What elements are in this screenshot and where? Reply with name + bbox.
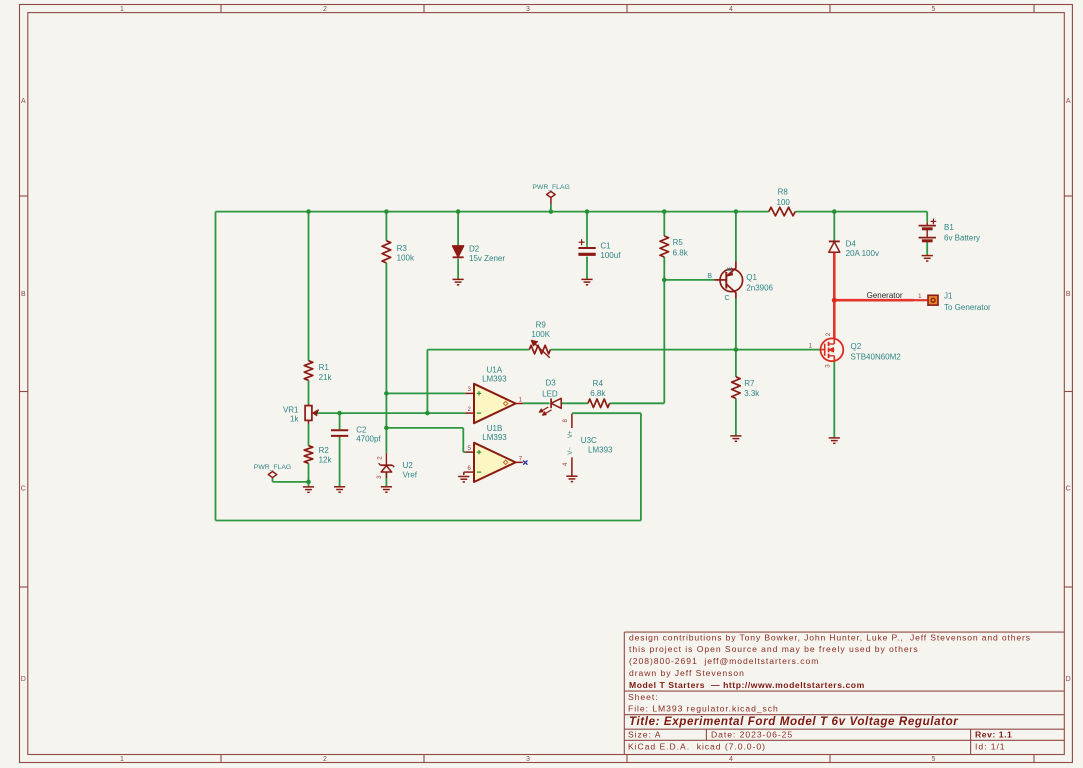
junction Q1 base/R5 xyxy=(662,278,667,283)
resistor R2 xyxy=(304,446,332,465)
svg-text:STB40N60M2: STB40N60M2 xyxy=(851,352,902,361)
svg-text:this project is Open Source an: this project is Open Source and may be f… xyxy=(629,644,919,654)
svg-text:R3: R3 xyxy=(397,244,408,253)
svg-text:R5: R5 xyxy=(673,238,684,247)
svg-text:2: 2 xyxy=(323,6,327,13)
wire battery drop xyxy=(926,212,928,223)
mosfet Q2 xyxy=(809,332,902,367)
svg-text:drawn by Jeff Stevenson: drawn by Jeff Stevenson xyxy=(629,668,745,678)
junction gate/R7 xyxy=(734,347,739,352)
resistor R5 xyxy=(660,236,689,258)
wire R5 to R4 corner xyxy=(610,257,665,403)
junction generator (highlighted) xyxy=(832,298,837,303)
svg-text:R8: R8 xyxy=(778,188,789,197)
svg-text:7: 7 xyxy=(519,455,523,462)
svg-text:3: 3 xyxy=(824,364,831,368)
svg-text:R4: R4 xyxy=(593,379,604,388)
ground (C1) xyxy=(581,279,592,284)
svg-text:6v Battery: 6v Battery xyxy=(944,233,980,242)
svg-text:Model T Starters — http://www: Model T Starters — http://www.modeltstar… xyxy=(629,680,865,690)
svg-text:100k: 100k xyxy=(397,254,415,263)
wire U1A output to D3 xyxy=(523,402,550,404)
junction rail/R1 xyxy=(306,209,311,214)
battery B1 xyxy=(919,219,980,243)
svg-text:6.8k: 6.8k xyxy=(673,249,689,258)
svg-text:File: LM393 regulator.kicad_sc: File: LM393 regulator.kicad_sch xyxy=(628,703,779,713)
net label Generator xyxy=(867,291,903,300)
svg-text:1k: 1k xyxy=(290,415,299,424)
wire R7 top xyxy=(735,350,737,377)
svg-text:Size: A: Size: A xyxy=(628,730,661,740)
svg-text:100K: 100K xyxy=(531,330,550,339)
wire R5 column from rail xyxy=(663,212,665,236)
op-amp U1B xyxy=(465,424,523,482)
svg-text:3.3k: 3.3k xyxy=(744,389,760,398)
svg-text:12k: 12k xyxy=(319,455,333,464)
svg-text:U1B: U1B xyxy=(487,424,503,433)
wire D3 to R4 xyxy=(562,402,588,404)
connector J1 xyxy=(918,291,991,312)
wire bottom of V+ loop xyxy=(216,520,641,522)
diode D4 xyxy=(829,240,879,259)
wire R9 to Q2 gate xyxy=(550,349,821,351)
junction wiper/R9 xyxy=(425,411,430,416)
svg-text:Generator: Generator xyxy=(867,291,903,300)
svg-text:B: B xyxy=(707,273,712,280)
svg-text:R1: R1 xyxy=(319,363,330,372)
svg-text:Id: 1/1: Id: 1/1 xyxy=(975,742,1006,752)
svg-text:PWR_FLAG: PWR_FLAG xyxy=(532,184,569,191)
svg-text:2n3906: 2n3906 xyxy=(746,283,773,292)
wire U1B pin5 net xyxy=(386,428,465,452)
svg-text:V+: V+ xyxy=(567,430,574,438)
resistor R4 xyxy=(588,379,610,407)
svg-text:4: 4 xyxy=(562,462,569,466)
wire Q1 base xyxy=(664,279,714,281)
wire C1 to ground xyxy=(586,257,588,280)
svg-text:U2: U2 xyxy=(403,461,414,470)
wire R9 left xyxy=(427,349,529,351)
wire U2 to ground xyxy=(385,472,387,487)
svg-text:4: 4 xyxy=(729,756,733,763)
wire U1A pin3 net xyxy=(386,392,465,394)
svg-text:D3: D3 xyxy=(545,379,556,388)
svg-text:2: 2 xyxy=(323,756,327,763)
wire R7 to ground xyxy=(735,398,737,435)
resistor R1 xyxy=(304,361,332,382)
svg-text:(208)800-2691 jeff@modeltstar: (208)800-2691 jeff@modeltstarters.com xyxy=(629,656,819,666)
svg-text:A: A xyxy=(1066,98,1071,105)
svg-text:6.8k: 6.8k xyxy=(590,389,606,398)
junction R3/pin5 xyxy=(384,426,389,431)
svg-text:To Generator: To Generator xyxy=(944,303,991,312)
svg-text:100: 100 xyxy=(777,198,791,207)
junction R3/pin3 xyxy=(384,391,389,396)
junction rail/PWR_FLAG xyxy=(549,209,554,214)
svg-text:D: D xyxy=(1066,676,1071,683)
wire generator net horizontal (highlighted) xyxy=(834,299,913,302)
svg-text:PWR_FLAG: PWR_FLAG xyxy=(254,464,291,471)
svg-text:R2: R2 xyxy=(319,446,330,455)
wire D2 column xyxy=(457,212,459,246)
wire battery to ground xyxy=(926,242,928,256)
svg-text:Date: 2023-06-25: Date: 2023-06-25 xyxy=(711,730,793,740)
svg-text:Rev: 1.1: Rev: 1.1 xyxy=(975,730,1012,740)
wire right side of V+ loop xyxy=(640,413,642,520)
svg-text:15v Zener: 15v Zener xyxy=(469,254,505,263)
svg-text:5: 5 xyxy=(932,756,936,763)
ground (U2) xyxy=(381,487,392,492)
svg-text:Title: Experimental Ford Model: Title: Experimental Ford Model T 6v Volt… xyxy=(629,715,959,728)
junction rail/R5 xyxy=(662,209,667,214)
ground (D2) xyxy=(453,279,464,284)
svg-text:8: 8 xyxy=(562,418,569,422)
svg-text:D2: D2 xyxy=(469,244,480,253)
wire VR1 to R2 xyxy=(308,424,310,446)
svg-text:3: 3 xyxy=(526,756,530,763)
svg-text:J1: J1 xyxy=(944,291,953,300)
resistor R8 xyxy=(769,188,795,216)
wire R3 column from rail xyxy=(385,212,387,241)
ground (R7) xyxy=(730,436,741,441)
svg-text:VR1: VR1 xyxy=(283,405,299,414)
wire D4 top xyxy=(833,212,835,242)
resistor R3 xyxy=(382,241,415,263)
svg-text:C2: C2 xyxy=(356,426,367,435)
svg-text:C: C xyxy=(724,295,729,302)
no-connect (U1B pin 7) xyxy=(523,460,527,464)
svg-text:E: E xyxy=(727,266,734,271)
svg-text:B1: B1 xyxy=(944,223,954,232)
wire D2 to ground xyxy=(457,259,459,280)
wire R1 to VR1 xyxy=(308,380,310,404)
svg-text:3: 3 xyxy=(526,6,530,13)
svg-text:Vref: Vref xyxy=(403,470,418,479)
svg-text:1: 1 xyxy=(120,6,124,13)
svg-text:LM393: LM393 xyxy=(588,445,613,454)
svg-text:U3C: U3C xyxy=(581,436,597,445)
wire Q2 source to ground xyxy=(833,361,835,437)
svg-text:design contributions by Tony B: design contributions by Tony Bowker, Joh… xyxy=(629,632,1031,642)
zener diode D2 xyxy=(453,244,506,263)
svg-text:4: 4 xyxy=(729,6,733,13)
resistor R7 xyxy=(732,377,761,399)
junction rail/D4 xyxy=(832,209,837,214)
junction rail/C1 xyxy=(585,209,590,214)
svg-text:20A 100v: 20A 100v xyxy=(846,249,879,258)
svg-text:C: C xyxy=(21,486,26,493)
capacitor C2 xyxy=(331,426,381,444)
ground (C2) xyxy=(334,487,345,492)
op-amp U1A xyxy=(465,365,523,423)
junction rail/R3 xyxy=(384,209,389,214)
svg-text:LED: LED xyxy=(542,390,558,399)
svg-text:D4: D4 xyxy=(846,240,857,249)
wire C1 column xyxy=(586,212,588,247)
svg-text:1: 1 xyxy=(120,756,124,763)
wire R2 to ground node xyxy=(308,463,310,486)
power flag PWR_FLAG (lower) xyxy=(254,464,291,477)
svg-text:4700pf: 4700pf xyxy=(356,435,381,444)
wire J1 pin stub xyxy=(914,299,928,301)
svg-text:Q1: Q1 xyxy=(746,273,757,282)
junction R2/PWR_FLAG xyxy=(306,480,311,485)
svg-text:U1A: U1A xyxy=(487,365,503,374)
rheostat R9 xyxy=(529,320,550,357)
svg-text:LM393: LM393 xyxy=(482,433,507,442)
zener reference U2 xyxy=(376,453,418,480)
svg-text:KiCad E.D.A. kicad (7.0.0-0): KiCad E.D.A. kicad (7.0.0-0) xyxy=(628,742,766,752)
wire R3 to U2 xyxy=(385,263,387,453)
capacitor C1 xyxy=(578,239,621,260)
wire C2 to ground xyxy=(339,437,341,487)
svg-text:R9: R9 xyxy=(536,320,547,329)
svg-text:R7: R7 xyxy=(744,379,755,388)
svg-text:Sheet:: Sheet: xyxy=(628,692,659,702)
junction rail/D2 xyxy=(456,209,461,214)
svg-text:V−: V− xyxy=(567,447,574,455)
junction wiper/C2 xyxy=(337,411,342,416)
svg-text:21k: 21k xyxy=(319,373,333,382)
wire R1 column from rail xyxy=(308,212,310,361)
wire C2 top xyxy=(339,413,341,429)
svg-text:Q2: Q2 xyxy=(851,342,862,351)
junction rail/Q1 xyxy=(734,209,739,214)
svg-text:B: B xyxy=(21,291,26,298)
svg-text:A: A xyxy=(21,98,26,105)
svg-text:C1: C1 xyxy=(600,241,611,250)
ground (Q2) xyxy=(829,438,840,443)
wire V+ horizontal xyxy=(572,412,641,414)
wire +6v top rail left of R8 xyxy=(216,211,769,213)
wire Q1 collector down xyxy=(735,299,737,350)
svg-text:2: 2 xyxy=(376,456,383,460)
ground (U1B pin 6) xyxy=(458,472,469,482)
ground (U3C) xyxy=(566,476,577,481)
ground (B1) xyxy=(922,256,933,261)
potentiometer VR1 xyxy=(283,404,319,424)
ground (R2/PWR_FLAG node) xyxy=(303,487,314,492)
svg-text:D: D xyxy=(21,676,26,683)
wire PWR_FLAG2 to node xyxy=(273,478,309,482)
wire +6v top rail right of R8 xyxy=(795,211,927,213)
wire VR1 wiper to U1A pin2 xyxy=(317,412,465,414)
wire Q1 emitter to rail xyxy=(735,212,737,262)
wire left side of V+ loop xyxy=(215,212,217,521)
op-amp power pins U3C xyxy=(562,414,613,476)
led D3 xyxy=(539,379,561,416)
power flag PWR_FLAG (upper) xyxy=(532,184,569,212)
svg-text:100uf: 100uf xyxy=(600,251,621,260)
svg-text:B: B xyxy=(1066,291,1071,298)
svg-text:LM393: LM393 xyxy=(482,374,507,383)
svg-text:5: 5 xyxy=(932,6,936,13)
wire generator net vertical (highlighted) xyxy=(833,252,836,338)
transistor Q1 xyxy=(707,262,773,302)
wire R9 branch vertical xyxy=(426,350,428,414)
svg-text:C: C xyxy=(1066,486,1071,493)
